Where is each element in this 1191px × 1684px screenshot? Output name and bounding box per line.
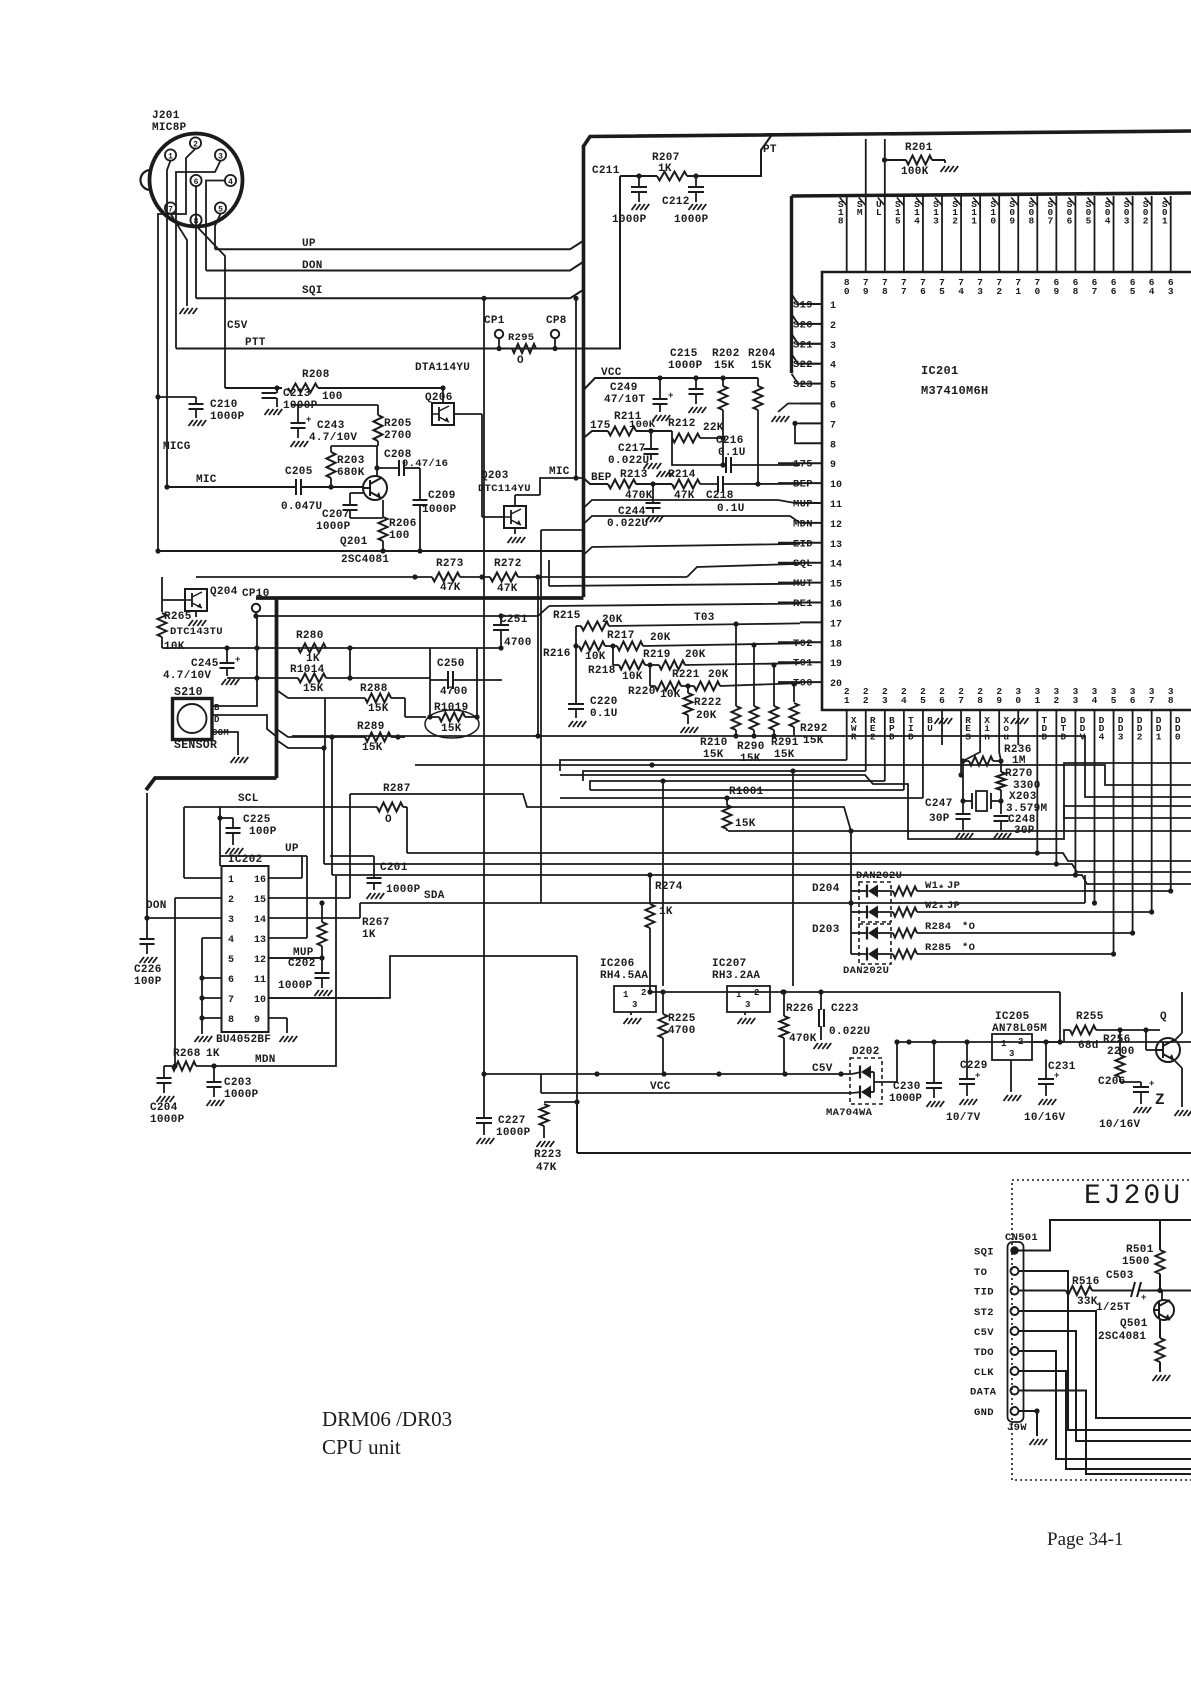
svg-text:R217: R217	[607, 630, 635, 642]
svg-text:C205: C205	[285, 466, 313, 478]
resistor R210	[732, 706, 741, 730]
IC201 pin 70	[1036, 196, 1038, 272]
svg-text:O: O	[385, 814, 392, 826]
wire 175 into pin9	[672, 438, 726, 465]
J201 pin 3	[215, 149, 226, 160]
wire TDO	[1019, 1351, 1191, 1459]
svg-text:C220: C220	[590, 696, 618, 708]
wire	[301, 486, 363, 488]
wire pin15	[349, 794, 351, 898]
wire bus row 736-797	[794, 736, 1191, 797]
wire heavy vertical	[275, 598, 279, 778]
wire MUP pin11	[778, 500, 800, 503]
svg-text:1000P: 1000P	[422, 504, 457, 516]
svg-text:5: 5	[1111, 695, 1117, 706]
svg-text:14: 14	[830, 560, 842, 571]
wire C5V	[1019, 1331, 1191, 1441]
junction	[321, 745, 326, 750]
wire	[792, 374, 823, 384]
svg-text:D204: D204	[812, 883, 840, 895]
svg-text:470K: 470K	[789, 1033, 817, 1045]
wire	[332, 736, 365, 738]
svg-text:CP1: CP1	[484, 315, 505, 327]
wire lattice left vertical	[575, 626, 577, 703]
wire	[269, 917, 361, 919]
svg-text:R501: R501	[1126, 1244, 1154, 1256]
IC201 pin 78	[884, 139, 886, 272]
svg-text:R202: R202	[712, 348, 740, 360]
svg-text:*: *	[938, 904, 945, 916]
svg-text:0: 0	[1015, 695, 1021, 706]
svg-text:MDN: MDN	[255, 1054, 276, 1066]
svg-text:1000P: 1000P	[668, 360, 703, 372]
svg-text:4700: 4700	[440, 686, 468, 698]
svg-text:R225: R225	[668, 1013, 696, 1025]
wire	[795, 423, 800, 443]
capacitor C225	[217, 815, 222, 820]
svg-text:5: 5	[939, 286, 945, 297]
IC201 pin 79	[865, 139, 867, 272]
svg-text:M37410M6H: M37410M6H	[921, 384, 989, 398]
svg-text:R285: R285	[925, 942, 951, 954]
junction	[329, 734, 334, 739]
svg-text:SDA: SDA	[424, 890, 445, 902]
wire	[406, 807, 408, 853]
svg-text:7: 7	[830, 420, 836, 431]
svg-text:19: 19	[830, 659, 842, 670]
wire DD3 drop	[1113, 745, 1115, 954]
resistor R223	[544, 1101, 577, 1103]
svg-text:IC205: IC205	[995, 1011, 1030, 1023]
junction	[199, 975, 204, 980]
svg-text:X203: X203	[1009, 791, 1037, 803]
capacitor C212	[687, 175, 761, 177]
svg-text:IC201: IC201	[921, 364, 959, 378]
svg-text:1K: 1K	[206, 1048, 220, 1060]
wire	[792, 294, 823, 304]
wire ST2	[1019, 1311, 1191, 1418]
wire	[778, 641, 800, 643]
svg-text:DTC143TU: DTC143TU	[170, 626, 223, 638]
svg-text:4: 4	[228, 178, 233, 187]
svg-text:C5V: C5V	[227, 320, 248, 332]
wire MUP row	[584, 500, 779, 508]
svg-text:0.1U: 0.1U	[717, 503, 745, 515]
svg-text:RH4.5AA: RH4.5AA	[600, 970, 648, 982]
svg-text:MIC: MIC	[196, 474, 217, 486]
wire	[184, 877, 222, 879]
svg-text:+: +	[975, 1071, 981, 1081]
wire row TID	[590, 789, 904, 791]
ground	[772, 416, 777, 422]
svg-text:11: 11	[830, 500, 842, 511]
svg-text:100P: 100P	[249, 826, 277, 838]
svg-text:20K: 20K	[602, 614, 623, 626]
capacitor C210	[158, 396, 196, 398]
svg-text:1000P: 1000P	[612, 214, 647, 226]
svg-text:2: 2	[1054, 695, 1060, 706]
wire	[202, 997, 222, 999]
svg-text:15K: 15K	[735, 818, 756, 830]
svg-text:R288: R288	[360, 683, 388, 695]
svg-text:6: 6	[939, 695, 945, 706]
svg-text:Page 34-1: Page 34-1	[1047, 1529, 1124, 1550]
svg-text:0.022U: 0.022U	[608, 455, 649, 467]
svg-text:9: 9	[1054, 286, 1060, 297]
svg-text:14: 14	[254, 915, 266, 926]
IC201 pin 21	[846, 710, 848, 745]
svg-text:C210: C210	[210, 399, 238, 411]
wire bus row 818	[1064, 817, 1191, 819]
svg-text:1: 1	[844, 695, 850, 706]
IC201 pin 19	[800, 661, 822, 663]
IC201 pin 74	[960, 196, 962, 272]
wire	[202, 1017, 222, 1019]
IC201 pin 20	[800, 681, 822, 683]
wire	[518, 576, 687, 578]
svg-text:EJ20U: EJ20U	[1084, 1181, 1183, 1212]
junction	[144, 915, 149, 920]
svg-text:R268: R268	[173, 1048, 201, 1060]
svg-text:+: +	[1054, 1071, 1060, 1081]
svg-text:MUP: MUP	[793, 499, 813, 511]
capacitor C204	[163, 1066, 165, 1077]
wire col T01	[773, 665, 775, 706]
wire row 875	[332, 875, 1191, 884]
svg-text:R255: R255	[1076, 1011, 1104, 1023]
svg-text:R210: R210	[700, 737, 728, 749]
svg-text:8: 8	[1073, 286, 1079, 297]
resistor R290	[750, 706, 759, 730]
wire	[778, 681, 800, 683]
svg-text:7: 7	[1092, 286, 1098, 297]
wire	[650, 685, 655, 687]
wire TO	[1019, 1271, 1191, 1430]
wire	[1063, 806, 1065, 818]
wire	[537, 577, 539, 736]
junction	[771, 662, 776, 667]
svg-text:R223: R223	[534, 1149, 562, 1161]
IC201 pin 28	[979, 710, 981, 745]
wire DATA	[1019, 1391, 1191, 1475]
svg-text:13: 13	[830, 540, 842, 551]
IC201 pin 5	[800, 383, 822, 385]
svg-text:R221: R221	[672, 669, 700, 681]
wire VCC rail	[541, 1092, 852, 1094]
svg-text:C223: C223	[831, 1003, 859, 1015]
svg-text:C215: C215	[670, 348, 698, 360]
svg-text:2700: 2700	[384, 430, 412, 442]
resistor R205	[374, 415, 383, 441]
svg-text:2: 2	[754, 988, 759, 998]
svg-text:R205: R205	[384, 418, 412, 430]
CN501 pin GND	[1011, 1407, 1019, 1415]
IC201 pin 1	[800, 303, 822, 305]
wire	[206, 181, 225, 271]
wire row 853	[407, 853, 1191, 861]
capacitor C226	[146, 918, 148, 938]
wire	[227, 677, 298, 679]
wire row18	[605, 645, 617, 647]
svg-text:+: +	[235, 655, 241, 665]
svg-text:47K: 47K	[440, 582, 461, 594]
svg-text:8: 8	[1028, 215, 1034, 226]
svg-text:R1014: R1014	[290, 664, 325, 676]
wire	[962, 761, 964, 802]
svg-text:1000P: 1000P	[150, 1114, 185, 1126]
wire SCL row	[184, 806, 377, 808]
svg-text:0: 0	[1175, 731, 1181, 742]
svg-text:MICG: MICG	[163, 441, 191, 453]
svg-text:C229: C229	[960, 1060, 988, 1072]
resistor R265 DTC143TU 10K	[158, 613, 167, 637]
svg-text:R284: R284	[925, 921, 951, 933]
IC201 pin 17	[800, 621, 822, 623]
wire SQI	[196, 290, 583, 298]
svg-text:10K: 10K	[585, 651, 606, 663]
IC201 pin 13	[800, 542, 822, 544]
svg-text:4700: 4700	[668, 1025, 696, 1037]
svg-text:R218: R218	[588, 665, 616, 677]
svg-text:9: 9	[996, 695, 1002, 706]
svg-text:7: 7	[958, 695, 964, 706]
ground	[201, 1032, 203, 1034]
wire heavy bottom	[146, 778, 277, 790]
svg-text:RH3.2AA: RH3.2AA	[712, 970, 760, 982]
IC201 pin 27	[960, 710, 962, 745]
wire	[636, 430, 672, 432]
junction	[733, 621, 738, 626]
svg-text:100: 100	[389, 530, 410, 542]
IC201 pin 4	[800, 363, 822, 365]
IC201 pin 24	[903, 710, 905, 745]
resistor R292	[790, 703, 799, 727]
IC201 pin 8	[800, 442, 822, 444]
svg-text:30P: 30P	[929, 813, 950, 825]
svg-text:6: 6	[194, 178, 199, 187]
wire	[196, 576, 432, 578]
svg-text:8: 8	[1168, 695, 1174, 706]
svg-text:4: 4	[1092, 695, 1098, 706]
svg-text:9: 9	[863, 286, 869, 297]
svg-text:C202: C202	[288, 958, 316, 970]
svg-text:VCC: VCC	[650, 1081, 671, 1093]
wire	[228, 682, 230, 686]
svg-text:11: 11	[254, 975, 266, 986]
wire row 831	[728, 830, 1191, 832]
wire rail A	[650, 991, 1060, 993]
svg-text:DRM06 /DR03: DRM06 /DR03	[322, 1407, 452, 1431]
svg-text:C207: C207	[322, 509, 350, 521]
wire	[1175, 1033, 1182, 1040]
svg-text:4.7/10V: 4.7/10V	[309, 432, 357, 444]
wire bus row 765-785	[415, 765, 1191, 785]
svg-text:15: 15	[830, 580, 842, 591]
svg-text:L: L	[876, 207, 882, 218]
junction	[848, 828, 853, 833]
wire MDN down-left	[541, 529, 584, 531]
IC201 pin 80	[846, 196, 848, 272]
wire CLK	[1019, 1371, 1191, 1469]
J201 pin 2	[190, 137, 201, 148]
svg-text:3: 3	[1118, 731, 1124, 742]
svg-text:20: 20	[830, 679, 842, 690]
wire	[576, 1102, 578, 1153]
svg-text:C204: C204	[150, 1102, 178, 1114]
svg-text:68d: 68d	[1078, 1040, 1099, 1052]
wire CP10 row2	[256, 606, 549, 616]
svg-text:10: 10	[254, 995, 266, 1006]
wire	[1175, 1061, 1182, 1068]
svg-text:0.1U: 0.1U	[590, 708, 618, 720]
svg-text:15K: 15K	[368, 703, 389, 715]
wire MIC line	[167, 486, 296, 488]
svg-text:R208: R208	[302, 369, 330, 381]
svg-text:5: 5	[830, 381, 836, 392]
svg-text:1/25T: 1/25T	[1096, 1302, 1131, 1314]
svg-text:M: M	[857, 207, 863, 218]
svg-text:3: 3	[933, 215, 939, 226]
wire	[269, 1017, 288, 1019]
svg-text:1: 1	[971, 215, 977, 226]
wire DTD drop	[1055, 745, 1057, 864]
J201 pin 1	[165, 149, 176, 160]
svg-text:2: 2	[863, 695, 869, 706]
svg-text:R203: R203	[337, 455, 365, 467]
svg-text:12: 12	[830, 520, 842, 531]
IC201 pin 37	[1151, 710, 1153, 745]
IC201 pin 12	[800, 522, 822, 524]
IC201 pin 25	[922, 710, 924, 745]
ground	[180, 308, 185, 314]
svg-text:R290: R290	[737, 741, 765, 753]
svg-text:16: 16	[254, 875, 266, 886]
svg-text:O: O	[517, 355, 524, 367]
wire	[576, 956, 578, 1153]
svg-text:DAN202U: DAN202U	[843, 965, 889, 977]
wire	[331, 737, 333, 875]
ground	[935, 718, 940, 724]
wire	[301, 856, 303, 878]
IC201 pin 76	[922, 196, 924, 272]
svg-text:1000P: 1000P	[386, 884, 421, 896]
resistor R225	[659, 1014, 668, 1038]
svg-text:1: 1	[1162, 215, 1168, 226]
svg-text:1: 1	[736, 990, 742, 1000]
CN501 pin ST2	[1011, 1307, 1019, 1315]
svg-text:MIC: MIC	[549, 466, 570, 478]
svg-text:1000P: 1000P	[496, 1127, 531, 1139]
svg-text:C217: C217	[618, 443, 646, 455]
svg-text:0.022U: 0.022U	[607, 518, 648, 530]
svg-text:CLK: CLK	[974, 1367, 994, 1379]
capacitor C243	[291, 404, 378, 406]
svg-text:R270: R270	[1005, 768, 1033, 780]
junction	[199, 995, 204, 1000]
svg-text:5: 5	[228, 955, 234, 966]
wire SQI branch down	[483, 298, 485, 1117]
svg-text:R215: R215	[553, 610, 581, 622]
svg-text:5: 5	[895, 215, 901, 226]
svg-text:C247: C247	[925, 798, 953, 810]
svg-text:100K: 100K	[901, 166, 929, 178]
wire	[162, 599, 185, 601]
IC201 pin 7	[800, 422, 822, 424]
svg-text:3: 3	[1124, 215, 1130, 226]
wire	[1064, 1030, 1070, 1042]
svg-text:PTT: PTT	[245, 337, 266, 349]
svg-text:5: 5	[218, 205, 223, 214]
wire	[778, 542, 800, 544]
svg-text:10: 10	[830, 480, 842, 491]
transistor Q201 2SC4081	[363, 476, 387, 500]
wire	[778, 482, 800, 484]
svg-text:15: 15	[254, 895, 266, 906]
svg-text:10/16V: 10/16V	[1024, 1112, 1066, 1124]
wire EID row	[584, 544, 801, 555]
svg-text:7: 7	[901, 286, 907, 297]
junction	[254, 645, 259, 650]
svg-text:R222: R222	[694, 697, 722, 709]
IC201 pin 9	[800, 462, 822, 464]
IC201 pin 22	[865, 710, 867, 745]
IC201 pin 2	[800, 323, 822, 325]
svg-text:Q201: Q201	[340, 536, 368, 548]
svg-text:+: +	[1149, 1079, 1155, 1089]
svg-text:7: 7	[1048, 215, 1054, 226]
svg-text:4: 4	[901, 695, 907, 706]
wire Q206 to Q203	[481, 414, 483, 506]
svg-text:7: 7	[168, 205, 173, 214]
IC201 pin 10	[800, 482, 822, 484]
IC201 pin 73	[979, 196, 981, 272]
wire row XWR	[560, 760, 847, 771]
wire C5V rail	[484, 1073, 852, 1075]
wire SQI-MIC vertical	[575, 298, 577, 478]
wire SQL row	[687, 564, 800, 577]
svg-text:100P: 100P	[134, 976, 162, 988]
wire	[175, 897, 222, 899]
resistor R222	[687, 686, 689, 693]
wire	[269, 897, 351, 899]
wire col T03	[735, 624, 737, 706]
svg-text:2: 2	[830, 321, 836, 332]
svg-text:4.7/10V: 4.7/10V	[163, 670, 211, 682]
svg-text:9: 9	[254, 1015, 260, 1026]
svg-text:*O: *O	[962, 921, 975, 933]
svg-text:8: 8	[882, 286, 888, 297]
svg-text:UP: UP	[302, 238, 316, 250]
diode D203 DAN202U	[859, 924, 891, 964]
IC201 pin 26	[941, 710, 943, 745]
svg-text:C231: C231	[1048, 1061, 1076, 1073]
IC201 pin 77	[903, 196, 905, 272]
svg-text:2: 2	[1137, 731, 1143, 742]
wire	[269, 957, 323, 959]
wire MIC to BEP crossing	[540, 478, 584, 495]
svg-text:10K: 10K	[164, 641, 185, 653]
svg-text:B: B	[214, 703, 220, 713]
svg-text:3: 3	[228, 915, 234, 926]
svg-text:6: 6	[228, 975, 234, 986]
wire	[269, 997, 384, 999]
wire	[403, 806, 407, 808]
IC201 pin 69	[1055, 196, 1057, 272]
wire IC202 left vertical	[201, 938, 203, 1032]
wire D202 out	[874, 1042, 897, 1082]
wire	[612, 646, 614, 665]
wire BEP row	[584, 478, 609, 484]
